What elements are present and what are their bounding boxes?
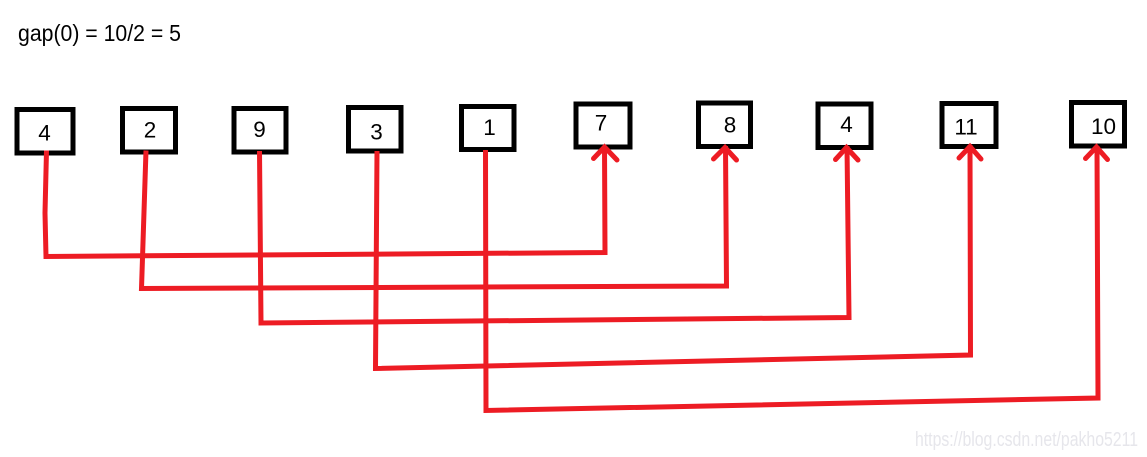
svg-text:10: 10	[1091, 114, 1116, 139]
svg-text:11: 11	[954, 115, 977, 140]
wire from box 5 (1) to box 10 (10)	[486, 146, 1099, 411]
box 6 value 7	[576, 104, 630, 147]
wire from box 4 (3) to box 9 (11)	[376, 145, 971, 369]
svg-text:1: 1	[483, 115, 496, 140]
svg-text:4: 4	[840, 112, 853, 137]
arrowhead at box 8 (4)	[836, 148, 859, 161]
svg-text:7: 7	[595, 111, 608, 136]
box 3 value 9	[234, 109, 286, 153]
box 5 value 1	[462, 107, 515, 150]
box 7 value 8	[699, 103, 751, 147]
wire from box 3 (9) to box 8 (4)	[260, 146, 850, 323]
box 2 value 2	[123, 109, 176, 153]
arrowhead at box 6 (7)	[594, 147, 618, 160]
wire from box 1 (4) to box 6 (7)	[45, 146, 605, 257]
box 9 value 11	[942, 104, 996, 147]
box 10 value 10	[1072, 103, 1125, 147]
svg-text:4: 4	[38, 121, 51, 146]
svg-text:https://blog.csdn.net/pakho521: https://blog.csdn.net/pakho5211	[915, 429, 1138, 451]
arrowhead at box 9 (11)	[959, 147, 981, 160]
svg-text:gap(0) = 10/2 = 5: gap(0) = 10/2 = 5	[18, 20, 181, 46]
svg-text:3: 3	[370, 120, 383, 145]
svg-text:9: 9	[253, 117, 266, 142]
box 8 value 4	[818, 104, 871, 148]
arrowhead at box 10 (10)	[1086, 147, 1108, 160]
svg-text:2: 2	[144, 118, 157, 143]
svg-text:8: 8	[724, 113, 737, 138]
arrowhead at box 7 (8)	[714, 148, 737, 161]
wire from box 2 (2) to box 7 (8)	[142, 146, 727, 289]
box 4 value 3	[349, 108, 402, 152]
box 1 value 4	[17, 110, 73, 154]
